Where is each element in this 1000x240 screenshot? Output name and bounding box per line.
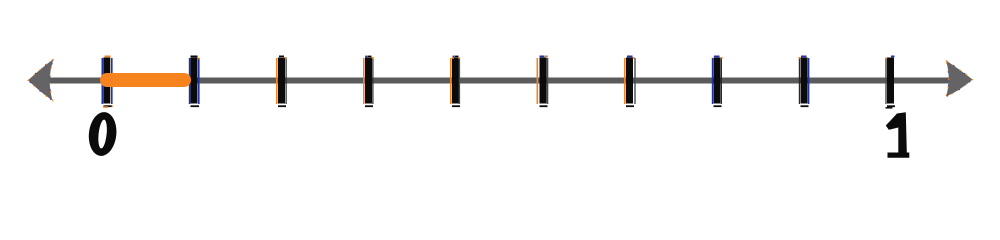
right arrowhead sketch outline xyxy=(946,61,973,97)
tick 9 xyxy=(799,56,810,108)
number line axis (wire) xyxy=(46,78,950,84)
label 1 xyxy=(886,112,910,158)
orange segment 0 to 1/9 xyxy=(100,73,191,87)
tick 1 xyxy=(102,56,113,108)
tick 7 xyxy=(624,56,636,108)
tick 6 xyxy=(537,56,549,108)
right arrowhead xyxy=(946,61,973,97)
label 1 accent dash xyxy=(886,107,893,109)
left arrowhead sketch outline xyxy=(28,59,54,101)
tick 3 xyxy=(276,56,287,108)
tick 8 xyxy=(712,56,723,108)
label 0 accent dash xyxy=(103,106,108,108)
left arrowhead xyxy=(28,59,54,101)
tick 4 xyxy=(363,56,374,108)
tick 2 xyxy=(189,56,200,108)
tick 5 xyxy=(450,56,460,108)
label 0 xyxy=(87,111,119,158)
tick 10 xyxy=(885,56,895,108)
